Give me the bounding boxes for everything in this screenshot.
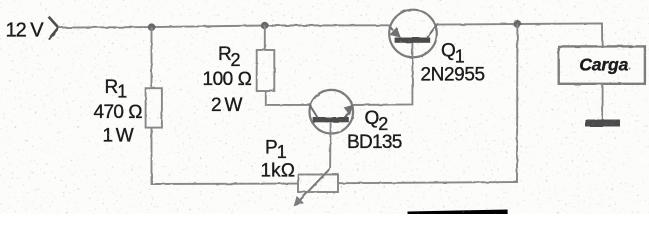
transistor Q1 emitter lead with arrow (PNP) xyxy=(389,26,393,30)
potentiometer P1 body xyxy=(298,175,338,193)
transistor Q1 base bar xyxy=(395,38,431,43)
node junction B (above R2) xyxy=(261,22,269,30)
transistor Q2 base bar xyxy=(313,117,349,122)
wire Q2 base lead down xyxy=(329,122,332,168)
transistor Q1 collector lead xyxy=(427,25,437,38)
node 12V input connector xyxy=(49,17,59,40)
wire top rail left xyxy=(58,25,389,27)
transistor Q1 body xyxy=(389,10,437,58)
resistor R2 xyxy=(257,50,275,91)
wire load bottom lead xyxy=(602,84,604,120)
black bar (cropped figure border at bottom) xyxy=(408,210,508,215)
ground xyxy=(585,120,620,127)
wire top rail right xyxy=(437,23,602,46)
wire R1 bottom lead to bottom rail xyxy=(152,128,299,184)
wire R1 top lead xyxy=(151,27,153,88)
transistor Q2 collector lead xyxy=(310,105,318,118)
load box Carga xyxy=(559,46,645,83)
wire Q2 emitter to Q1 base xyxy=(353,43,413,105)
transistor Q2 body xyxy=(310,90,354,134)
speck after Carga xyxy=(628,67,630,69)
node junction C (output rail) xyxy=(514,20,522,28)
transistor Q2 emitter lead with arrow xyxy=(346,110,351,118)
wire R2 bottom lead to Q2 xyxy=(266,91,310,105)
resistor R1 xyxy=(146,88,162,127)
node junction A (above R1) xyxy=(148,23,156,31)
wire bottom rail right xyxy=(338,24,517,183)
potentiometer P1 wiper arrow xyxy=(300,169,331,201)
wire R2 top lead xyxy=(264,26,266,51)
